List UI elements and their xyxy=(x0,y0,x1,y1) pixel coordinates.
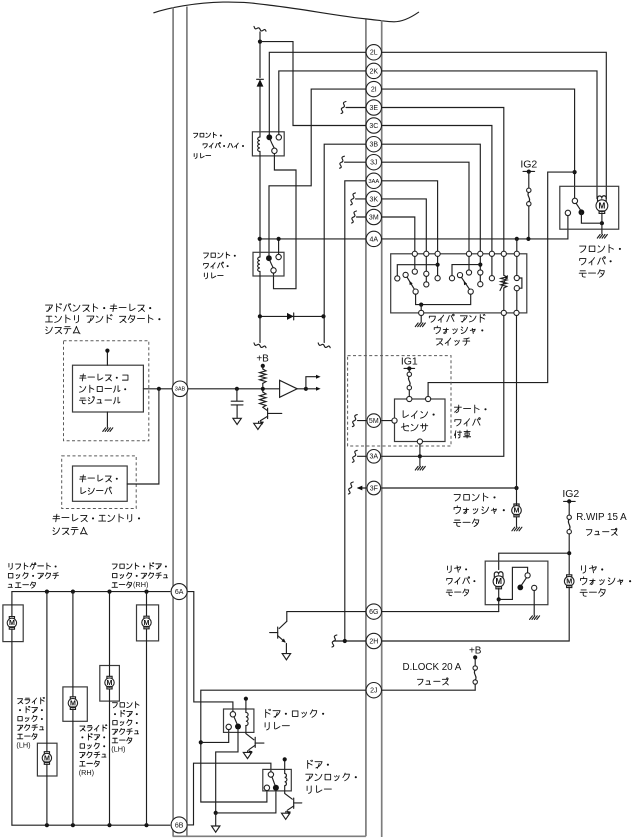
wire: relay supply net with continuation mark, diode D1, relay coils xyxy=(254,26,266,31)
keyless control module box xyxy=(73,365,144,412)
wire 3E to switch xyxy=(382,108,504,252)
wire 2H left with 3AA node xyxy=(334,640,366,642)
power stub (unlock relay) xyxy=(284,760,286,773)
wire 3J to switch xyxy=(382,162,469,251)
svg-text:M: M xyxy=(44,754,50,762)
wire 2I to park switch xyxy=(382,89,575,198)
node 3AB xyxy=(172,381,188,397)
label liftgate lock actuator xyxy=(9,563,12,569)
fuse (wiper) xyxy=(527,188,531,192)
label rear wiper motor xyxy=(448,566,452,573)
node 3E xyxy=(366,100,381,115)
junction block left bus (double line) xyxy=(173,7,187,837)
node rail x=146.5 top xyxy=(144,590,148,594)
switch top pins xyxy=(412,251,417,256)
svg-text:2I: 2I xyxy=(371,87,377,94)
svg-text:M: M xyxy=(495,577,502,586)
svg-text:M: M xyxy=(107,679,113,687)
node 4A/IG2 xyxy=(526,237,530,241)
rear wiper motor box xyxy=(485,561,548,605)
slide door RH motor M9 xyxy=(44,752,49,754)
wire 2J right to fuse xyxy=(382,689,476,691)
node rail x=146.5 bottom xyxy=(144,823,148,827)
relay R1 common contact xyxy=(266,134,272,140)
wire 2K to R1 NC contact xyxy=(279,71,366,135)
wire 4A branch to R2 NC xyxy=(278,239,280,255)
wire 4A (left side) xyxy=(259,238,366,240)
svg-text:+B: +B xyxy=(256,354,269,365)
wire diode to relay R1 coil xyxy=(259,87,261,137)
rear park switch common xyxy=(525,573,530,578)
node 2K xyxy=(366,63,381,78)
park switch NC contact xyxy=(565,210,570,215)
node 4A/washer-switch xyxy=(515,237,519,241)
label auto wiper xyxy=(454,405,461,413)
ground (Q4) xyxy=(282,813,290,819)
wire 3K continuation xyxy=(356,198,366,200)
diode D2 line with continuation marks xyxy=(260,315,324,317)
washer switch lever (right) xyxy=(457,273,462,278)
node 5M xyxy=(367,414,381,428)
wire 5M to rain sensor xyxy=(382,420,392,422)
keyless receiver box xyxy=(73,466,128,501)
label front wiper high relay xyxy=(194,133,198,137)
wire rail to unlock relay common xyxy=(216,791,276,813)
node 6G xyxy=(366,604,381,619)
node 2H xyxy=(366,633,381,648)
wire to motor ground xyxy=(601,223,603,234)
diode D1 (pointing up) xyxy=(257,79,264,86)
ground (front washer motor) xyxy=(512,527,522,531)
svg-text:3M: 3M xyxy=(369,214,379,221)
slide door LH motor M8 xyxy=(70,697,75,699)
lock relay transistor Q3 xyxy=(246,726,254,740)
node 3C xyxy=(366,118,381,133)
wire 4A (right side) to park switch xyxy=(382,216,568,239)
svg-text:3K: 3K xyxy=(370,196,379,203)
node rail x=109.5 top xyxy=(107,590,111,594)
svg-text:2H: 2H xyxy=(369,638,378,645)
node ground rail xyxy=(214,811,218,815)
ground (Q2) xyxy=(282,654,290,660)
rear park moving contact xyxy=(517,585,523,591)
label front door lock actuator LH xyxy=(112,703,117,708)
node 3K xyxy=(366,191,381,206)
rear washer motor M4 xyxy=(567,575,572,577)
wire fuse to 4A xyxy=(528,206,530,239)
node 4A xyxy=(366,231,381,246)
transistor Q1 xyxy=(263,407,267,410)
svg-text:(RH): (RH) xyxy=(133,580,148,589)
wiper switch lever (left) xyxy=(403,272,408,277)
ground (keyless module) xyxy=(106,412,108,427)
node 2H/3AA xyxy=(343,639,347,643)
node 6B xyxy=(171,817,187,833)
wire lock relay common to ground rail xyxy=(216,730,238,813)
node rail x=46.9 top xyxy=(45,590,49,594)
svg-text:M: M xyxy=(9,619,15,627)
fuse R.WIP 15A xyxy=(567,515,571,519)
ground (wiper switch) xyxy=(415,323,425,327)
svg-text:4A: 4A xyxy=(370,236,379,243)
switch internal wires (left wiper section) xyxy=(414,256,416,269)
amp output arrows xyxy=(297,388,306,390)
node 6A xyxy=(171,584,187,600)
wire 2K to motor terminal xyxy=(382,71,597,199)
lock relay contacts xyxy=(230,712,235,717)
wire motor to park contact xyxy=(499,567,528,599)
diode D2 (pointing right) xyxy=(287,313,294,320)
park switch common contact xyxy=(572,198,577,203)
svg-text:(RH): (RH) xyxy=(79,768,94,777)
wire receiver to node xyxy=(127,389,159,484)
liftgate actuator motor M5 xyxy=(9,617,14,619)
node 2J xyxy=(366,683,381,698)
wire node to lock relay NC xyxy=(201,730,229,743)
svg-text:M: M xyxy=(144,619,150,627)
wire 6B to unlock relay xyxy=(188,763,271,825)
svg-text:3E: 3E xyxy=(370,105,379,112)
relay R1 NC contact xyxy=(276,135,281,140)
wire 3J continuation xyxy=(345,161,366,163)
svg-text:2L: 2L xyxy=(370,50,378,57)
amplifier U1 xyxy=(280,380,298,397)
front wiper high relay R1 box xyxy=(252,132,284,156)
wire 3M continuation xyxy=(357,216,366,218)
label front washer motor xyxy=(454,495,460,501)
wire motor to 6G xyxy=(498,599,500,611)
relay R2 coil xyxy=(258,257,260,272)
svg-text:M: M xyxy=(70,699,76,707)
door unlock relay box xyxy=(263,769,292,791)
lock relay lever xyxy=(234,717,237,724)
svg-text:R.WIP 15 A: R.WIP 15 A xyxy=(576,512,627,523)
wire 2I to relay R2 common xyxy=(269,89,366,255)
relay R2 common contact xyxy=(266,255,272,261)
front wiper relay R2 box xyxy=(253,252,284,276)
svg-text:3B: 3B xyxy=(370,142,379,149)
wire relay coil feed upper xyxy=(259,32,261,78)
svg-text:M: M xyxy=(514,506,520,515)
rear wiper motor M3 xyxy=(494,572,503,577)
svg-text:M: M xyxy=(598,202,605,211)
node 3A/rain-sensor xyxy=(418,454,422,458)
node rear feed xyxy=(567,551,571,555)
front wiper motor box xyxy=(560,186,619,229)
slide door lock actuator LH box xyxy=(63,687,87,721)
wire 3C to switch xyxy=(382,126,492,252)
capacitor C1 xyxy=(236,389,238,401)
ground (Q1) xyxy=(254,423,262,429)
wire 3C to relay feed xyxy=(260,42,366,126)
rear park NC contact xyxy=(532,585,537,590)
wire IG2 to fuse xyxy=(528,172,530,189)
unlock relay contacts xyxy=(268,772,273,777)
wire 2L to R1 common xyxy=(269,52,366,134)
label slide door lock actuator RH xyxy=(80,726,85,731)
wire 3F to front washer motor xyxy=(382,487,517,489)
wire R2 coil to diode net xyxy=(259,272,261,317)
slide door lock actuator RH box xyxy=(37,743,57,776)
label front wiper motor xyxy=(580,246,586,252)
relay R2 NC contact xyxy=(276,254,281,259)
wire park switch to motor ground node xyxy=(581,212,602,223)
node rail x=72.9 bottom xyxy=(71,823,75,827)
junction node diode/3C xyxy=(258,40,262,44)
label slide door lock actuator LH xyxy=(18,699,23,704)
svg-text:6G: 6G xyxy=(369,609,378,616)
door lock relay box xyxy=(224,709,254,732)
node 2I/autowiper feed xyxy=(573,170,577,174)
wire module to 3AB xyxy=(143,388,279,390)
svg-text:5M: 5M xyxy=(369,418,379,425)
svg-text:3C: 3C xyxy=(369,123,378,130)
rear park switch lever xyxy=(522,578,527,585)
node washer line xyxy=(478,263,482,267)
svg-text:3F: 3F xyxy=(370,485,378,492)
fuse D.LOCK 20A xyxy=(473,666,477,670)
relay R1 coil xyxy=(258,137,260,152)
node mist line xyxy=(436,263,440,267)
svg-text:D.LOCK 20 A: D.LOCK 20 A xyxy=(403,662,462,673)
label wiper and washer switch xyxy=(429,316,435,322)
intermittent variable resistor xyxy=(503,256,505,275)
front wiper motor M1 xyxy=(598,196,607,201)
wire rain sensor ground leg / 3A xyxy=(419,444,421,456)
svg-text:6A: 6A xyxy=(175,589,184,596)
power stub (keyless module) xyxy=(106,352,108,366)
torn-page wavy top edge xyxy=(154,2,419,22)
wire feed to rear wiper motor xyxy=(499,553,570,569)
node 3AA xyxy=(366,173,381,188)
svg-text:3J: 3J xyxy=(370,160,377,167)
park switch moving contact xyxy=(579,209,585,215)
junction block bottom edge xyxy=(173,835,366,837)
node motor/park-switch xyxy=(600,221,604,225)
relay R2 NO contact xyxy=(271,268,276,273)
ground (door relays) xyxy=(212,826,220,832)
wire 3B to diode net xyxy=(324,144,366,342)
wire 2L to motor terminal xyxy=(382,52,607,198)
actuator return rail (6B) xyxy=(12,824,170,826)
front door lock actuator LH box xyxy=(100,666,120,702)
node 3B xyxy=(366,137,381,152)
node 4A/R2NC xyxy=(277,237,281,241)
node rail x=72.9 top xyxy=(71,590,75,594)
unlock relay transistor Q4 xyxy=(285,786,293,799)
node switch common xyxy=(419,303,423,307)
advanced keyless dashed box xyxy=(64,341,149,441)
relay R2 lever xyxy=(270,261,273,268)
svg-text:IG1: IG1 xyxy=(401,356,418,368)
node 3F xyxy=(367,481,381,495)
wire 3M to switch xyxy=(382,217,415,251)
svg-text:(LH): (LH) xyxy=(16,741,30,750)
label door lock relay xyxy=(266,709,271,717)
label keyless receiver xyxy=(80,475,86,482)
label keyless control module xyxy=(80,374,86,381)
wire 3AA to switch xyxy=(382,181,438,251)
front door lock actuator RH box xyxy=(137,605,159,641)
svg-text:6B: 6B xyxy=(175,822,184,829)
auto-wiper dashed box xyxy=(348,356,451,446)
node 2L xyxy=(366,45,381,60)
relay R1 lever xyxy=(270,140,274,148)
wire fuse to rear washer motor xyxy=(568,534,570,574)
rain sensor pins xyxy=(407,396,412,401)
svg-text:3AA: 3AA xyxy=(368,179,379,185)
svg-text:+B: +B xyxy=(469,646,482,657)
front door LH motor M7 xyxy=(107,676,112,678)
rain sensor box xyxy=(395,399,446,442)
wire fuse to rain sensor xyxy=(408,390,410,397)
label keyless entry system xyxy=(53,514,60,522)
node rear wiper motor xyxy=(497,597,501,601)
node rail x=109.5 bottom xyxy=(107,823,111,827)
svg-text:2K: 2K xyxy=(370,68,379,75)
node 4A/coil xyxy=(258,237,262,241)
ground (rear wiper) xyxy=(530,616,540,620)
keyless receiver dashed box xyxy=(62,456,137,509)
wire 3AA down to 2H node xyxy=(345,181,366,641)
wire 3F continuation arrow xyxy=(358,487,366,489)
unlock relay coil xyxy=(285,773,287,785)
svg-text:M: M xyxy=(566,577,572,586)
resistor R3 xyxy=(260,369,266,383)
node 2J branch xyxy=(199,740,203,744)
svg-text:3AB: 3AB xyxy=(175,387,186,393)
wire 6A to lock relay xyxy=(188,592,233,712)
node rail x=46.9 bottom xyxy=(45,823,49,827)
node 3J xyxy=(366,155,381,170)
wire continuation stub left xyxy=(259,316,261,342)
park switch lever xyxy=(576,203,580,209)
liftgate lock actuator box xyxy=(3,605,23,642)
label rear washer motor xyxy=(582,566,586,573)
svg-text:2J: 2J xyxy=(370,688,377,695)
power stub (lock relay) xyxy=(245,700,247,713)
unlock relay lever xyxy=(272,777,275,785)
label front door lock actuator RH xyxy=(112,564,117,569)
node 3F/washer xyxy=(514,486,518,490)
svg-text:IG2: IG2 xyxy=(520,159,537,171)
node amp input xyxy=(261,387,265,391)
svg-text:IG2: IG2 xyxy=(562,488,579,500)
wire 2H to rear washer motor xyxy=(382,588,570,641)
svg-text:(LH): (LH) xyxy=(111,745,125,754)
lock relay coil xyxy=(246,712,248,725)
wire 2J left to relays xyxy=(201,690,366,802)
wiper and washer switch box xyxy=(391,254,527,313)
wire motor to ground node xyxy=(601,213,603,223)
wire to ground xyxy=(533,591,535,616)
node 3A xyxy=(367,450,381,464)
relay R1 NO contact xyxy=(272,148,277,153)
wire R1 coil to R2 coil xyxy=(259,152,261,258)
wire 3K to switch xyxy=(382,199,427,251)
washer jumper contact xyxy=(516,256,518,275)
actuator supply rail (6A) xyxy=(12,591,170,593)
label door unlock relay xyxy=(308,760,313,768)
label front wiper relay xyxy=(204,253,209,258)
front door RH motor M6 xyxy=(144,616,149,618)
label advanced keyless system xyxy=(46,305,53,312)
wire 3E continuation xyxy=(346,107,366,109)
ground (capacitor) xyxy=(233,418,241,424)
ground (front wiper motor) xyxy=(597,235,607,239)
node capacitor tap xyxy=(235,387,239,391)
wire 4A node to switch contact xyxy=(516,239,518,251)
label rain sensor xyxy=(403,411,408,418)
svg-text:3A: 3A xyxy=(370,454,379,461)
6G transistor Q2 xyxy=(287,612,366,622)
wire 3B to switch xyxy=(382,144,481,251)
wire 6G to rear wiper motor xyxy=(382,611,499,613)
wire switch to ground xyxy=(420,316,422,323)
wire 3A to switch resistor xyxy=(382,316,504,457)
fuse (rain sensor) xyxy=(407,372,411,376)
wire R1 NO to R2 NO xyxy=(274,154,297,289)
node 3B/diode xyxy=(321,314,325,318)
wire washer switch to washer motor xyxy=(516,316,518,506)
ground (rain sensor) xyxy=(415,466,425,470)
junction block centre bus (double line) xyxy=(366,20,382,838)
node 3M xyxy=(366,209,381,224)
wire park-switch node to rain sensor upper contact xyxy=(428,172,574,396)
ground (Q3) xyxy=(243,752,251,758)
switch common rail xyxy=(416,294,471,304)
node coil/diode xyxy=(258,314,262,318)
switch internal wires (right washer section) xyxy=(468,256,470,270)
resistor R4 xyxy=(260,392,266,407)
node 2I xyxy=(366,81,381,96)
front washer motor M2 xyxy=(514,504,519,506)
node receiver joint xyxy=(157,387,161,391)
